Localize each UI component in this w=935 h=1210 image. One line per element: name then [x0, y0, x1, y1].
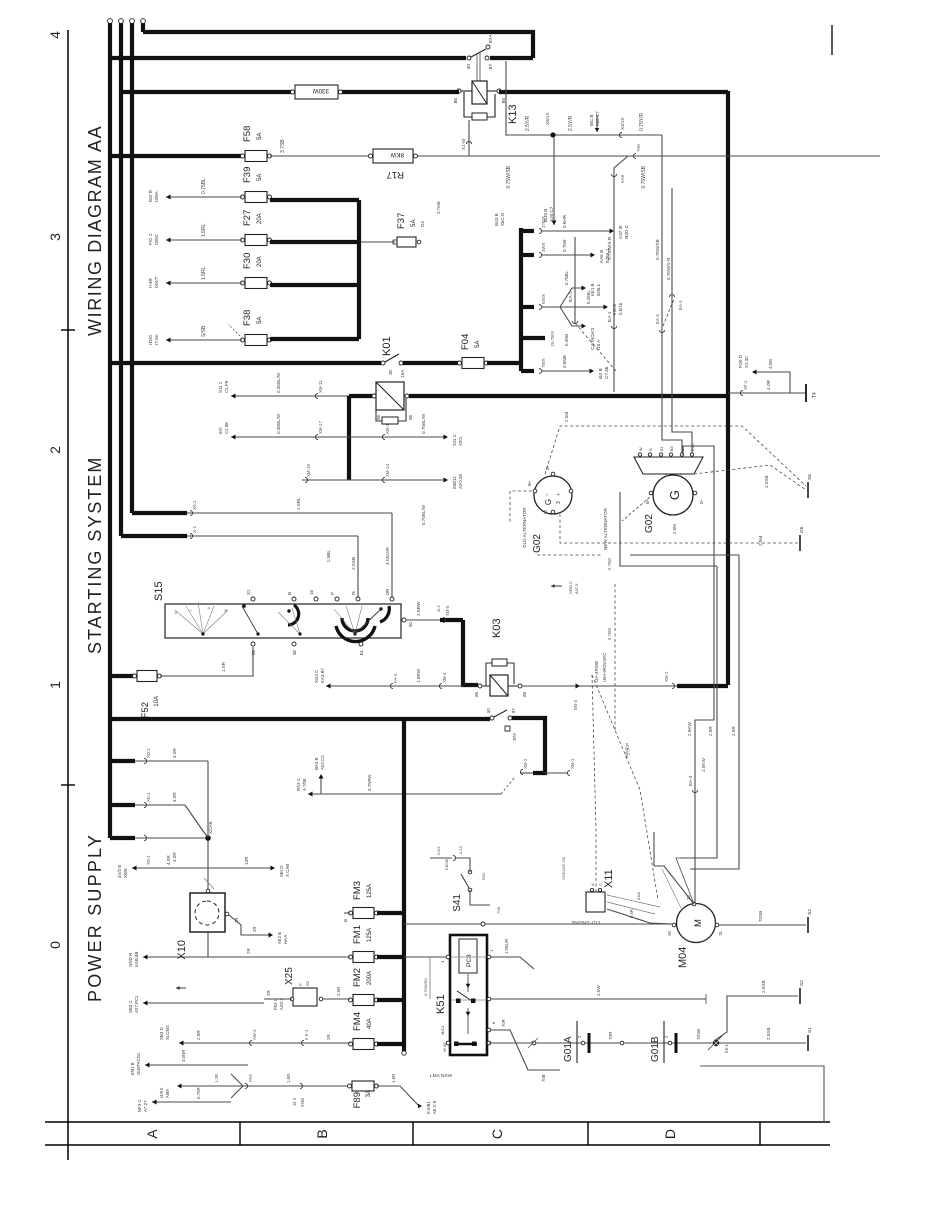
- relay K13 switch: [467, 56, 471, 60]
- svg-text:4.0R: 4.0R: [766, 379, 772, 390]
- svg-text:XM-1: XM-1: [570, 758, 575, 769]
- svg-text:2.5R: 2.5R: [336, 987, 341, 996]
- S15 pin 50a: [402, 618, 406, 622]
- svg-text:GND R: GND R: [128, 953, 133, 967]
- svg-text:0.6HR: 0.6HR: [562, 214, 567, 228]
- svg-text:N3O.C: N3O.C: [624, 224, 629, 239]
- svg-text:AE.C E: AE.C E: [432, 1100, 437, 1114]
- svg-text:30: 30: [388, 369, 393, 374]
- wire K13-87 output: [506, 61, 662, 135]
- ground S1: [807, 1035, 809, 1051]
- battery G01B: [663, 1021, 665, 1063]
- svg-text:I3/5A: I3/5A: [154, 190, 159, 202]
- K13 actuator link: [476, 53, 478, 81]
- svg-text:0.75W/S0: 0.75W/S0: [423, 978, 428, 996]
- svg-text:2.5M: 2.5M: [758, 536, 763, 546]
- svg-text:0: 0: [47, 941, 63, 949]
- svg-text:7WX: 7WX: [541, 358, 546, 368]
- svg-text:B+: B+: [527, 480, 532, 486]
- row tick D end: [759, 1122, 761, 1145]
- svg-text:K51: K51: [435, 994, 447, 1014]
- svg-text:D2: D2: [420, 221, 426, 227]
- svg-text:0.35BL/W: 0.35BL/W: [276, 372, 281, 393]
- connector on charge wire: [633, 153, 636, 158]
- svg-text:M-5: M-5: [436, 604, 441, 612]
- svg-text:E1: E1: [359, 649, 364, 655]
- svg-text:2.5SB: 2.5SB: [766, 1027, 771, 1040]
- svg-text:XM-11: XM-11: [318, 380, 323, 393]
- resistor R17: [373, 149, 413, 163]
- svg-text:3: 3: [47, 233, 63, 241]
- bus terminal circle 2: [119, 19, 124, 24]
- S41 wires: [455, 858, 470, 872]
- dashed sense wire: [614, 584, 616, 730]
- branch to BU3 ref: [553, 138, 555, 225]
- wire F52 to S15: [160, 647, 253, 676]
- alternator G02 new: [653, 475, 693, 515]
- wire FM1 to bus: [377, 955, 404, 959]
- ruler tick x425: [61, 784, 75, 786]
- wire F30 output: [270, 283, 359, 287]
- svg-text:86: 86: [474, 691, 479, 696]
- svg-text:2R: 2R: [246, 947, 251, 954]
- connector hook: [619, 132, 622, 137]
- wire rail GND: [143, 956, 350, 958]
- svg-text:XD:1: XD:1: [146, 748, 151, 758]
- svg-text:F27: F27: [242, 210, 253, 226]
- svg-text:XG3 C: XG3 C: [314, 670, 319, 683]
- svg-text:J5 II: J5 II: [292, 1098, 297, 1106]
- svg-text:86: 86: [453, 98, 459, 104]
- svg-text:A: A: [144, 1129, 160, 1139]
- wire rail EM1: [145, 1064, 248, 1066]
- svg-text:G02: G02: [644, 514, 655, 533]
- svg-text:330W: 330W: [313, 87, 329, 94]
- fuse F38: [245, 335, 267, 346]
- wire rail SB3: [143, 1002, 264, 1004]
- svg-text:F38: F38: [242, 310, 253, 326]
- svg-text:5A: 5A: [257, 174, 263, 181]
- wire EA-2 dashed: [574, 237, 576, 323]
- thick row link: [347, 396, 351, 480]
- wire 0.75WS0: [429, 957, 431, 999]
- wire F30 to ref arrow: [166, 282, 242, 284]
- svg-text:AN8: AN8: [636, 891, 641, 900]
- wire M04 ground: [719, 924, 806, 926]
- PC8 module: [459, 939, 477, 973]
- inner border bottom-left: [700, 1066, 824, 1122]
- rail to bus1 stub1: [110, 759, 135, 763]
- svg-text:A2O.2: A2O.2: [279, 997, 284, 1010]
- svg-text:86: 86: [376, 414, 381, 419]
- svg-text:50: 50: [292, 649, 297, 654]
- svg-text:5O5.1: 5O5.1: [596, 283, 601, 296]
- fork branch IH3: [560, 306, 604, 308]
- svg-text:FA-4: FA-4: [393, 673, 398, 683]
- wire FM2 to bus: [377, 998, 404, 1002]
- svg-text:0.75W: 0.75W: [607, 628, 612, 640]
- fuse FM1: [353, 952, 374, 963]
- connector EA-2 on D+ wire: [659, 330, 664, 333]
- svg-text:W 30: W 30: [442, 1042, 447, 1052]
- svg-text:0.75RW: 0.75RW: [367, 774, 372, 791]
- bus wire 3: [130, 23, 134, 513]
- svg-text:KA3.B7: KA3.B7: [320, 668, 325, 683]
- branch FO5 ref: [754, 372, 790, 393]
- svg-text:DL7WX: DL7WX: [550, 331, 555, 346]
- wire bus1 to F52: [110, 674, 135, 678]
- svg-text:0.6NB: 0.6NB: [562, 355, 567, 368]
- svg-text:2R: 2R: [234, 918, 239, 923]
- svg-text:BIC B: BIC B: [589, 114, 594, 126]
- svg-text:A27.PC1: A27.PC1: [134, 995, 139, 1013]
- svg-text:5A: 5A: [475, 341, 481, 348]
- svg-text:G: G: [544, 499, 553, 505]
- svg-text:X10: X10: [176, 940, 188, 960]
- svg-text:1.2R: 1.2R: [214, 1074, 219, 1083]
- svg-text:10A: 10A: [154, 696, 160, 707]
- svg-text:1.5RW: 1.5RW: [416, 668, 421, 683]
- svg-text:EA-2: EA-2: [568, 291, 574, 302]
- svg-text:HA A: HA A: [283, 934, 288, 944]
- svg-text:70B: 70B: [496, 907, 501, 914]
- svg-text:1.5BL: 1.5BL: [326, 550, 332, 563]
- svg-text:III: III: [223, 609, 228, 612]
- svg-text:KA8: KA8: [620, 174, 625, 183]
- svg-text:XF:1: XF:1: [743, 380, 748, 390]
- svg-text:XM-17: XM-17: [318, 421, 323, 434]
- svg-text:XM-15: XM-15: [306, 464, 311, 477]
- svg-text:15A: 15A: [400, 370, 405, 378]
- svg-text:2.5W: 2.5W: [596, 985, 601, 996]
- alternator G02 old: [534, 476, 572, 514]
- svg-text:OU8TACI11: OU8TACI11: [136, 1052, 141, 1075]
- top ruler line: [67, 30, 69, 1160]
- svg-text:3.0NR: 3.0NR: [181, 1050, 186, 1062]
- svg-text:PC8: PC8: [466, 954, 473, 967]
- main feed bus vertical: [110, 717, 490, 721]
- wire X1-M branch to K13 coil: [468, 120, 470, 156]
- svg-text:XE:1: XE:1: [146, 792, 151, 802]
- svg-text:0.75W/SB: 0.75W/SB: [655, 239, 660, 260]
- circle joint: [532, 1041, 536, 1045]
- dashed EA link: [663, 299, 674, 326]
- fork PA3: [245, 1083, 248, 1088]
- svg-text:G5: G5: [799, 526, 805, 533]
- wire rail NF3: [152, 1101, 231, 1103]
- svg-text:BA3 B: BA3 B: [314, 757, 319, 770]
- bolt junction K51-1: [713, 1040, 719, 1046]
- svg-text:2R: 2R: [252, 927, 257, 932]
- svg-text:85: 85: [522, 691, 527, 696]
- svg-text:AI8A: AI8A: [165, 1089, 170, 1098]
- svg-text:0.75W: 0.75W: [607, 558, 612, 570]
- svg-text:XM-3: XM-3: [573, 699, 578, 710]
- S15 wafer arc 2: [336, 626, 375, 642]
- svg-text:G01A: G01A: [563, 1036, 574, 1062]
- svg-text:I4/9 II: I4/9 II: [159, 1088, 164, 1098]
- K13 coil resistor: [472, 113, 487, 120]
- wire bus2 drop to 330W and K13 coil: [121, 90, 292, 94]
- svg-text:W: W: [639, 447, 643, 451]
- svg-text:LTD- ENGINE: LTD- ENGINE: [571, 920, 600, 925]
- svg-text:D: D: [662, 1129, 678, 1139]
- svg-text:XM-5: XM-5: [445, 605, 450, 616]
- wire K01 to F04: [403, 361, 460, 365]
- svg-text:N: N: [649, 448, 653, 451]
- svg-text:M04: M04: [677, 947, 689, 968]
- wire XM-17 rail: [231, 436, 444, 438]
- wire EA-4: [683, 446, 714, 904]
- svg-text:I+4R: I+4R: [148, 277, 153, 288]
- FM3 B pin: [344, 912, 350, 914]
- svg-text:C.6TACH:3: C.6TACH:3: [590, 327, 595, 350]
- svg-text:C1.98: C1.98: [224, 422, 229, 434]
- K51 battery link: [456, 1043, 477, 1045]
- svg-text:87A: 87A: [488, 34, 494, 43]
- svg-text:SB3 C: SB3 C: [128, 1000, 133, 1013]
- svg-text:AE2 B: AE2 B: [277, 932, 282, 944]
- thick link K01 coil: [349, 394, 374, 398]
- relay K03 coil: [490, 675, 508, 696]
- svg-text:AW-2: AW-2: [252, 1029, 257, 1040]
- svg-text:C7.36: C7.36: [604, 366, 609, 379]
- svg-text:1.5BL/R: 1.5BL/R: [504, 939, 509, 954]
- svg-text:IU33: IU33: [436, 846, 441, 855]
- dashed B+ option: [622, 497, 650, 521]
- svg-text:A2O.: A2O.: [458, 436, 463, 446]
- wire F04 to lamp bracket: [487, 361, 520, 365]
- main distribution bus: [402, 719, 406, 1053]
- K51 internal diode 2: [467, 1008, 469, 1034]
- wire rail battery feed: [179, 1042, 350, 1044]
- svg-text:5A: 5A: [411, 220, 417, 227]
- svg-text:XCAB: XCAB: [208, 821, 213, 834]
- wire bus1 to K01: [110, 361, 381, 365]
- svg-text:WIRING DIAGRAM AA: WIRING DIAGRAM AA: [85, 125, 105, 336]
- starter fan wires: [654, 866, 694, 904]
- branch BA3 ref: [320, 778, 322, 794]
- svg-text:S15: S15: [153, 581, 165, 601]
- svg-text:0.35BL/W: 0.35BL/W: [276, 413, 281, 434]
- svg-text:1.5R: 1.5R: [286, 1074, 291, 1083]
- svg-text:2.5R: 2.5R: [731, 726, 736, 736]
- svg-text:1.5RL: 1.5RL: [296, 497, 302, 510]
- wire F39 output: [270, 198, 359, 202]
- wire F27 output: [270, 240, 359, 244]
- svg-text:1: 1: [489, 949, 494, 952]
- svg-text:EBM8: EBM8: [444, 858, 449, 870]
- S15 pin 15: [314, 597, 318, 601]
- svg-text:S2: S2: [807, 909, 813, 915]
- svg-text:2.5Y/R: 2.5Y/R: [568, 115, 574, 131]
- svg-text:0.75W/S-R: 0.75W/S-R: [607, 236, 613, 260]
- circle joint 2: [620, 1041, 624, 1045]
- svg-text:0.75W/SB: 0.75W/SB: [506, 165, 512, 188]
- wire K51 70R: [491, 1030, 560, 1070]
- svg-text:EA-1: EA-1: [607, 311, 613, 322]
- svg-text:4.0R: 4.0R: [172, 792, 177, 802]
- svg-text:A7 27: A7 27: [143, 1100, 148, 1112]
- ground S2: [799, 988, 801, 1004]
- svg-text:2.5SB: 2.5SB: [761, 980, 766, 993]
- S15 wafer arc 3: [380, 606, 389, 622]
- svg-text:RA3 C: RA3 C: [296, 778, 301, 791]
- svg-text:B: B: [287, 592, 292, 595]
- svg-text:87: 87: [511, 708, 516, 713]
- ref NRO near S15: [551, 584, 555, 588]
- svg-text:X1-M: X1-M: [461, 139, 466, 150]
- svg-text:0.75BL: 0.75BL: [201, 178, 207, 194]
- svg-text:IN8/11: IN8/11: [452, 476, 457, 489]
- wire starter 2: [680, 566, 717, 858]
- K51 pins: [446, 955, 450, 959]
- svg-text:A37.5: A37.5: [574, 583, 579, 594]
- S15 pin E1: [359, 642, 363, 646]
- fuse F58: [245, 151, 267, 162]
- svg-text:30: 30: [466, 64, 472, 70]
- svg-text:X-1: X-1: [192, 525, 197, 533]
- svg-text:P: P: [298, 983, 303, 986]
- wire F38 to ref arrow: [166, 339, 242, 341]
- XCAB junction: [207, 838, 209, 893]
- svg-text:F52: F52: [140, 702, 151, 718]
- svg-text:0.75BL/W: 0.75BL/W: [421, 413, 426, 434]
- svg-text:5A: 5A: [257, 133, 263, 140]
- svg-text:IL1S: IL1S: [458, 845, 463, 854]
- connector X5:1: [190, 510, 193, 515]
- relay box K51: [450, 935, 487, 1055]
- K03 coil resistor: [492, 659, 507, 666]
- svg-text:SEI D: SEI D: [279, 866, 284, 877]
- svg-text:B: B: [343, 919, 348, 922]
- svg-text:8KW: 8KW: [390, 151, 404, 158]
- svg-text:D-: D-: [545, 465, 550, 470]
- S15 wafer arc 1: [288, 605, 299, 625]
- svg-text:4V/2 B: 4V/2 B: [117, 865, 122, 878]
- svg-text:2.5KW: 2.5KW: [701, 758, 706, 772]
- svg-text:R05: R05: [481, 872, 486, 880]
- svg-text:2.5RW: 2.5RW: [416, 601, 422, 616]
- svg-text:3: 3: [556, 501, 562, 504]
- svg-text:I3/5C: I3/5C: [154, 233, 159, 245]
- switch S41: [468, 888, 472, 892]
- wire RA3 rail: [308, 793, 501, 795]
- svg-text:NEW ALTERNATOR: NEW ALTERNATOR: [603, 507, 608, 550]
- ignition switch S15 box: [165, 604, 401, 638]
- right edge mark: [831, 25, 833, 55]
- wire F27 to ref arrow: [166, 239, 242, 241]
- svg-text:A22.C2: A22.C2: [320, 755, 325, 770]
- svg-text:P63 C: P63 C: [273, 998, 278, 1010]
- fuse FM2: [353, 995, 374, 1006]
- bracket stub 2: [521, 253, 534, 257]
- ref arrow down right: [596, 115, 598, 132]
- K51 pass-through wires: [451, 956, 486, 958]
- bus terminal circle 1: [108, 19, 113, 24]
- svg-text:2.5M: 2.5M: [564, 412, 569, 422]
- S15 pin B: [292, 597, 296, 601]
- svg-text:KA5 B: KA5 B: [599, 250, 604, 263]
- relay K03 switch: [490, 716, 494, 720]
- dashed ground wire new alt: [694, 465, 806, 490]
- relay K13 coil: [472, 81, 487, 104]
- svg-text:2: 2: [664, 1035, 669, 1038]
- fuse F04: [462, 358, 484, 369]
- S15 switch internals: [175, 610, 203, 634]
- ruler tick x880: [61, 329, 75, 331]
- battery G01A: [576, 1021, 578, 1063]
- svg-text:EA-2: EA-2: [655, 314, 660, 324]
- svg-text:1: 1: [440, 960, 445, 963]
- svg-text:D-: D-: [699, 499, 704, 504]
- svg-text:BU3 B: BU3 B: [494, 213, 499, 226]
- svg-text:1: 1: [47, 681, 63, 689]
- svg-text:NF3 C: NF3 C: [137, 1099, 142, 1112]
- svg-text:II: II: [206, 607, 211, 609]
- svg-text:70B: 70B: [541, 1074, 546, 1082]
- svg-text:0.75BL/W: 0.75BL/W: [421, 504, 426, 525]
- wire R17 down: [418, 155, 880, 157]
- svg-text:M: M: [693, 919, 704, 927]
- svg-text:31: 31: [718, 930, 723, 935]
- svg-text:1.5RL: 1.5RL: [201, 223, 207, 237]
- bracket stub 4: [521, 336, 545, 340]
- S15 pin S2: [251, 642, 255, 646]
- svg-text:X4/1X: X4/1X: [620, 117, 625, 130]
- svg-text:1.5R: 1.5R: [221, 661, 227, 672]
- svg-text:KWX: KWX: [541, 294, 546, 304]
- svg-text:0.75BL: 0.75BL: [564, 271, 569, 285]
- svg-text:S6: S6: [807, 474, 813, 480]
- svg-text:A20.C7: A20.C7: [549, 206, 554, 222]
- svg-text:0: 0: [173, 611, 178, 614]
- svg-text:0.75W/SB: 0.75W/SB: [641, 165, 647, 188]
- svg-text:S2: S2: [251, 649, 256, 655]
- S15 pin S1: [251, 597, 255, 601]
- svg-text:70SB: 70SB: [758, 911, 763, 922]
- relay K01 switch: [381, 361, 385, 365]
- junction X6/1X: [550, 132, 555, 137]
- resistor 330W: [295, 85, 338, 99]
- ground S6: [807, 482, 809, 498]
- svg-text:70R: 70R: [608, 1031, 613, 1040]
- svg-text:F04: F04: [460, 334, 471, 350]
- bracket stub 5: [521, 369, 534, 373]
- svg-text:K03: K03: [491, 618, 503, 638]
- main bus corner wire: [726, 91, 730, 685]
- dashed ground wire W: [560, 514, 798, 543]
- svg-text:50: 50: [667, 930, 672, 935]
- wire K51 sense: [491, 957, 534, 969]
- svg-text:2.5Y/R: 2.5Y/R: [525, 115, 531, 131]
- ground T4: [805, 384, 807, 402]
- svg-text:2: 2: [577, 1035, 582, 1038]
- svg-text:X6/1X: X6/1X: [545, 112, 550, 125]
- X11 feed dashed: [592, 675, 596, 892]
- wire to K03 coil rail: [326, 685, 463, 687]
- svg-text:4.0R: 4.0R: [172, 748, 177, 758]
- svg-text:FM2: FM2: [352, 968, 363, 987]
- svg-text:A20 C7: A20 C7: [595, 111, 600, 126]
- svg-text:K-5/B1: K-5/B1: [426, 1101, 431, 1114]
- svg-text:FM1: FM1: [352, 925, 363, 944]
- row tick B/C: [412, 1122, 414, 1145]
- fuse F37: [397, 237, 416, 247]
- svg-text:XD:1: XD:1: [146, 855, 151, 865]
- svg-text:87: 87: [488, 64, 494, 70]
- svg-text:2.5SB: 2.5SB: [351, 557, 357, 570]
